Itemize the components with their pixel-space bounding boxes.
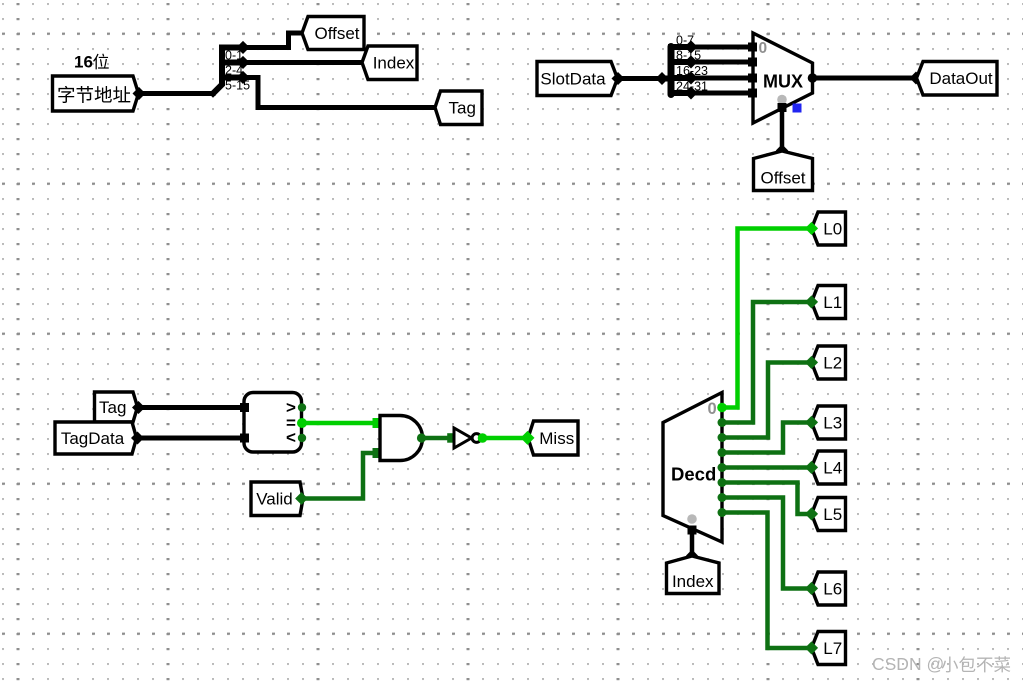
wire Valid to AND gate: [302, 453, 376, 499]
splitter S2 bit labels: [676, 34, 708, 94]
decoder U5 (Decd): [663, 393, 722, 543]
tunnel L0: [805, 212, 846, 245]
wire decoder out2 to L2: [722, 363, 810, 438]
NOT gate U4: [454, 428, 487, 448]
tunnel L6: [805, 572, 846, 605]
decoder select port: [687, 514, 697, 534]
tunnel Offset (MUX select): [754, 151, 813, 191]
watermark CSDN: [872, 654, 1010, 674]
svg-text:L2: L2: [823, 353, 842, 372]
svg-text:L1: L1: [823, 293, 842, 312]
svg-text:16: 16: [74, 53, 93, 72]
splitter S2 (SlotData into 4 bytes): [662, 40, 698, 99]
svg-text:2-4: 2-4: [225, 64, 243, 78]
AND gate U3: [373, 416, 427, 461]
tunnel TagData: [55, 422, 137, 454]
svg-text:0: 0: [708, 400, 717, 418]
svg-text:DataOut: DataOut: [929, 69, 993, 88]
svg-text:L0: L0: [823, 219, 842, 238]
wire MUX select to Offset tunnel: [776, 108, 788, 157]
svg-text:L7: L7: [823, 639, 842, 658]
wire decoder select to Index tunnel: [686, 530, 698, 562]
svg-text:MUX: MUX: [763, 72, 803, 92]
svg-text:L3: L3: [823, 413, 842, 432]
svg-text:Valid: Valid: [256, 489, 293, 508]
svg-text:TagData: TagData: [61, 429, 125, 448]
wire splitter to Tag tunnel: [243, 78, 434, 108]
svg-text:0: 0: [759, 40, 768, 57]
wire 字节地址 to splitter: [132, 87, 213, 100]
svg-text:SlotData: SlotData: [540, 70, 606, 89]
svg-text:L4: L4: [823, 458, 842, 477]
svg-text:Miss: Miss: [539, 429, 574, 448]
tunnel L1: [805, 286, 846, 319]
blue unknown-value marker: [793, 104, 802, 113]
wire SlotData to splitter S2: [611, 72, 668, 85]
tunnel L2: [805, 346, 846, 379]
wire splitter to Offset tunnel: [243, 33, 301, 48]
tunnel Valid: [251, 482, 308, 516]
wire decoder out6 to L6: [722, 498, 810, 589]
wire decoder out5 to L5: [722, 483, 810, 515]
comparator U2: [240, 393, 307, 453]
svg-text:L6: L6: [823, 580, 842, 599]
tunnel DataOut: [917, 62, 998, 96]
svg-text:CSDN @: CSDN @: [872, 654, 944, 674]
wire Tag to comparator: [132, 401, 240, 414]
tunnel L7: [805, 632, 846, 665]
svg-text:Offset: Offset: [760, 168, 805, 187]
wire decoder out3 to L3: [722, 423, 810, 453]
tunnel L5: [805, 498, 846, 531]
svg-text:Tag: Tag: [449, 99, 476, 118]
svg-text:<: <: [286, 428, 296, 447]
svg-text:Index: Index: [672, 572, 714, 591]
tunnel Offset (top): [302, 17, 364, 50]
wire MUX output to DataOut: [813, 71, 923, 84]
tunnel Miss: [520, 421, 578, 455]
wire decoder out1 to L1: [722, 302, 810, 423]
tunnel SlotData: [537, 62, 618, 96]
wire decoder out4 to L4: [722, 465, 810, 470]
wire NOT to Miss tunnel: [483, 436, 527, 441]
svg-text:Offset: Offset: [314, 24, 359, 43]
tunnel L3: [805, 406, 846, 439]
tunnel L4: [805, 451, 846, 484]
svg-text:Decd: Decd: [671, 464, 716, 485]
svg-text:Tag: Tag: [99, 398, 126, 417]
tunnel Index (top): [362, 46, 417, 80]
multiplexer U1 (MUX): [748, 33, 817, 123]
wires splitter S2 to MUX inputs: [691, 47, 748, 93]
splitter S1 bit labels: [225, 49, 250, 93]
wire TagData to comparator: [131, 431, 240, 444]
wire decoder out7 to L7: [722, 513, 810, 649]
svg-text:0-1: 0-1: [225, 49, 243, 63]
splitter S1 (16-bit address into 0-1 / 2-4 / 5-15): [213, 41, 250, 94]
wire AND to NOT gate: [422, 433, 457, 443]
label 16-bit width: [74, 53, 109, 72]
decoder output port dots: [717, 403, 727, 517]
wire splitter to Index tunnel: [243, 60, 361, 65]
svg-text:Index: Index: [373, 54, 415, 73]
wire decoder out0 to L0: [722, 229, 810, 408]
tunnel 字节地址 (byte address input): [53, 76, 139, 111]
tunnel Tag (compare input): [95, 392, 138, 422]
tunnel Index (decoder select): [667, 556, 720, 594]
svg-text:L5: L5: [823, 505, 842, 524]
svg-text:5-15: 5-15: [225, 79, 250, 93]
tunnel Tag (top): [435, 91, 482, 125]
wire comparator equal to AND gate: [302, 421, 376, 426]
